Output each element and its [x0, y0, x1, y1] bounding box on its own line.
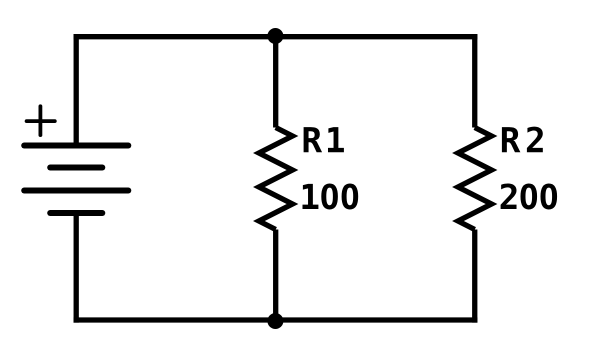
- resistor R2 zigzag: [458, 128, 492, 230]
- wire bottom horizontal net: [74, 317, 478, 322]
- wire R2 top lead: [472, 34, 477, 127]
- wire R1 bottom lead: [273, 230, 278, 323]
- wire left vertical (battery positive lead): [74, 34, 79, 145]
- wire top horizontal net: [74, 34, 478, 39]
- battery V1 plates: [24, 146, 128, 214]
- wire R1 top lead: [273, 34, 278, 127]
- label R1: [304, 127, 344, 152]
- battery polarity plus sign: [27, 106, 55, 135]
- junction node dot bottom: [267, 313, 283, 329]
- junction node dot top: [267, 28, 283, 44]
- value 100: [302, 183, 358, 209]
- value 200: [501, 183, 557, 209]
- resistor R1 zigzag: [259, 128, 293, 230]
- wire battery negative lead: [74, 213, 79, 323]
- label R2: [502, 127, 543, 153]
- wire R2 bottom lead: [472, 230, 477, 323]
